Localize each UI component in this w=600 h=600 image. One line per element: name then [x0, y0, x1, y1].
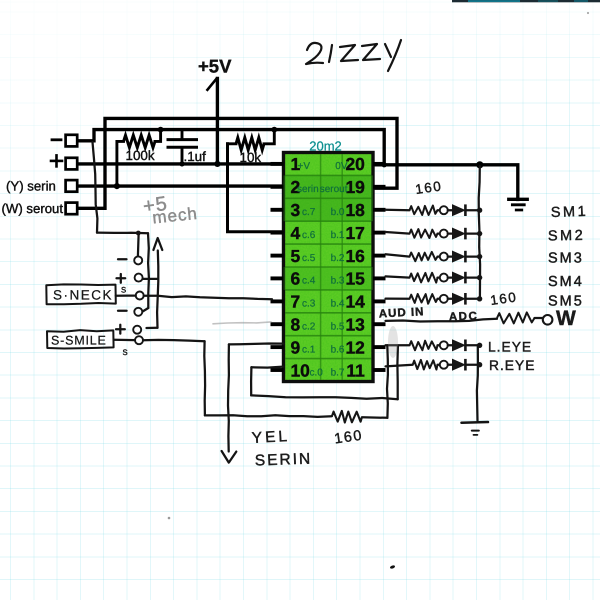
svg-text:18: 18	[345, 200, 365, 220]
svg-text:7: 7	[291, 292, 301, 312]
svg-text:10: 10	[291, 360, 310, 380]
svg-text:160: 160	[333, 428, 364, 448]
svg-text:+5V: +5V	[198, 56, 232, 77]
svg-text:c.3: c.3	[302, 299, 316, 310]
svg-text:s: s	[121, 284, 126, 296]
svg-text:c.1: c.1	[302, 344, 316, 355]
svg-text:16: 16	[345, 246, 365, 266]
svg-text:s: s	[123, 346, 128, 358]
svg-text:10k: 10k	[240, 150, 262, 165]
svg-text:c.4: c.4	[302, 276, 316, 287]
svg-text:b.2: b.2	[331, 253, 345, 264]
svg-text:17: 17	[345, 223, 364, 243]
svg-text:160: 160	[414, 178, 443, 197]
svg-text:.1uf: .1uf	[184, 149, 207, 164]
svg-text:c.5: c.5	[302, 253, 316, 264]
svg-text:13: 13	[345, 314, 365, 334]
svg-text:mech: mech	[151, 204, 198, 228]
svg-text:S·NECK: S·NECK	[53, 288, 113, 303]
svg-text:20: 20	[345, 154, 364, 174]
svg-text:11: 11	[346, 360, 365, 380]
svg-text:SERIN: SERIN	[255, 451, 313, 470]
svg-text:(Y) serin: (Y) serin	[6, 179, 56, 194]
svg-text:3: 3	[291, 200, 301, 220]
svg-text:+V: +V	[298, 161, 311, 172]
svg-text:b.4: b.4	[331, 299, 345, 310]
svg-text:(W) serout: (W) serout	[2, 201, 64, 216]
svg-text:R.EYE: R.EYE	[489, 358, 535, 373]
svg-text:b.6: b.6	[331, 344, 345, 355]
svg-text:SM4: SM4	[548, 274, 584, 290]
svg-text:ADC: ADC	[449, 310, 479, 323]
svg-text:100k: 100k	[126, 148, 155, 163]
svg-text:14: 14	[345, 292, 365, 312]
svg-text:8: 8	[291, 314, 301, 334]
svg-text:serin: serin	[297, 184, 319, 195]
svg-text:12: 12	[345, 337, 364, 357]
svg-text:b.5: b.5	[331, 321, 345, 332]
svg-text:AUD IN: AUD IN	[379, 306, 425, 320]
svg-text:YEL: YEL	[251, 428, 290, 447]
svg-text:15: 15	[345, 269, 365, 289]
svg-text:b.7: b.7	[331, 367, 345, 378]
svg-text:SM2: SM2	[548, 228, 586, 245]
svg-text:c.7: c.7	[302, 207, 316, 218]
svg-text:L.EYE: L.EYE	[488, 340, 532, 355]
svg-text:S-SMILE: S-SMILE	[51, 334, 107, 348]
svg-text:160: 160	[489, 289, 518, 308]
svg-text:c.2: c.2	[302, 321, 316, 332]
svg-text:c.6: c.6	[302, 230, 316, 241]
svg-text:9: 9	[291, 337, 301, 357]
svg-text:b.1: b.1	[331, 230, 345, 241]
svg-text:b.0: b.0	[331, 207, 345, 218]
svg-text:5: 5	[291, 246, 301, 266]
svg-text:19: 19	[345, 177, 365, 197]
svg-text:W: W	[556, 307, 576, 330]
svg-text:b.3: b.3	[331, 276, 345, 287]
svg-text:6: 6	[291, 269, 301, 289]
svg-text:serout: serout	[320, 184, 348, 195]
svg-text:SM3: SM3	[548, 251, 584, 267]
svg-text:SM1: SM1	[551, 204, 589, 221]
svg-text:4: 4	[291, 223, 301, 243]
svg-text:0V: 0V	[335, 161, 348, 172]
svg-text:20m2: 20m2	[309, 139, 342, 154]
svg-text:c.0: c.0	[310, 367, 324, 378]
